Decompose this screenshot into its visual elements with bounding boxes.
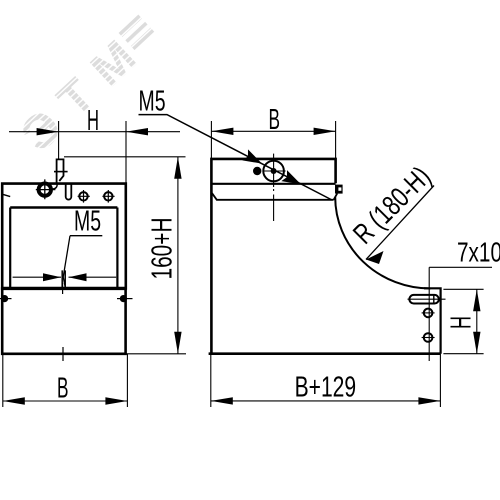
M5 stud on top of flange (52, 159, 67, 189)
flange keyhole slot (66, 184, 72, 200)
svg-text:7x10: 7x10 (457, 236, 500, 267)
flange hole small 1 (78, 190, 90, 203)
dimension H (right side) (443, 289, 483, 353)
leg hole 1 (422, 309, 435, 318)
svg-text:B: B (269, 104, 281, 136)
inner M5 stud (end view) (62, 270, 65, 287)
left view inner wall right (116, 208, 118, 289)
right view rear leg (424, 288, 441, 353)
svg-text:B: B (57, 372, 69, 404)
flange hole small 2 (102, 190, 114, 203)
left view flange left-end notch (2, 194, 10, 196)
leg hole 2 (422, 333, 435, 342)
right view top flange box (211, 159, 335, 195)
watermark ETM logo (11, 9, 169, 162)
center tick on divider (62, 283, 64, 294)
left view outer body (2, 184, 126, 289)
svg-text:160+H: 160+H (147, 218, 179, 280)
svg-text:B+129: B+129 (295, 372, 357, 404)
M5 leader arrowhead 2 (281, 170, 304, 190)
divider thick line (2, 287, 125, 290)
svg-text:H: H (87, 105, 99, 137)
dimension 160+H (64, 157, 186, 354)
weld dot right (117, 295, 133, 302)
flange hole big (bold) (36, 179, 56, 199)
M5 leader arrowhead 1 (242, 149, 265, 169)
right view bottom edge (209, 352, 441, 355)
M5 threaded hole (black dot) (253, 167, 261, 175)
inner converging dimension arrows (13, 276, 117, 278)
left view flange bottom edge (10, 206, 117, 209)
slot horizontal centerline (408, 298, 446, 300)
slot 7x10 (409, 295, 438, 304)
dimension B (bottom left) (3, 354, 128, 407)
radius leader R(180-H) (366, 186, 434, 260)
svg-text:R (180-H): R (180-H) (347, 161, 437, 251)
center tick on bottom edge (62, 347, 64, 361)
left view inner wall left (9, 208, 11, 289)
svg-text:М5: М5 (139, 86, 166, 118)
right view curve web (335, 197, 430, 289)
dimension B+129 (211, 354, 441, 407)
dimension B (right view top) (211, 121, 335, 159)
leg vertical centerline + 7x10 leader (428, 267, 430, 361)
flange hole target (side view) (263, 154, 286, 221)
svg-text:H: H (445, 316, 477, 329)
svg-text:М5: М5 (74, 205, 101, 237)
clamp tab body (335, 185, 343, 194)
right view clamp tab (334, 193, 338, 199)
right view left leg edge (210, 195, 213, 354)
dimension H (top left) (9, 121, 180, 183)
weld dot left (0, 295, 12, 302)
left view bottom cover box (2, 288, 125, 353)
